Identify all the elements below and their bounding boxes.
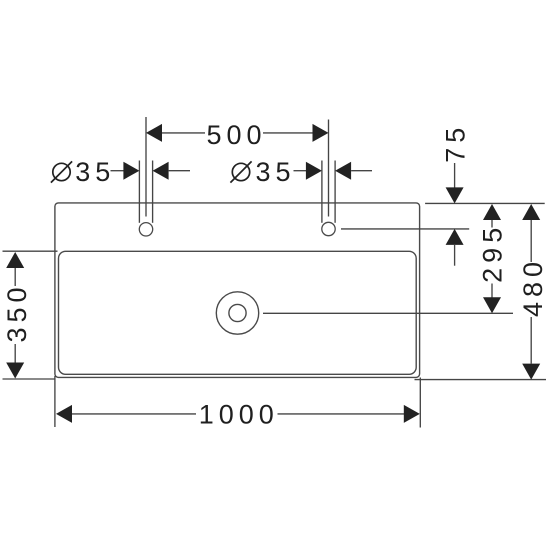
svg-text:350: 350 (2, 282, 32, 342)
extension line top right (rim back edge) (425, 202, 545, 204)
Ø35 label right: text 35 (255, 157, 295, 187)
extension line bottom right (415, 379, 547, 381)
Ø35 label right: diameter symbol (230, 161, 251, 182)
svg-text:35: 35 (255, 157, 295, 187)
extension line drain level (263, 312, 513, 314)
drain inner circle (229, 304, 246, 321)
svg-text:75: 75 (441, 123, 471, 163)
tap hole 2 circle (322, 222, 335, 235)
drain outer circle (216, 292, 258, 334)
basin inner bowl (59, 251, 417, 374)
dimension 350 line and arrows (6, 252, 24, 379)
Ø35 label left: diameter symbol (51, 161, 72, 182)
dimension 500 line (146, 124, 329, 142)
svg-text:295: 295 (478, 223, 508, 283)
Ø35 label left: text 35 (75, 157, 115, 187)
dimension 295 text (478, 223, 508, 283)
dimension 75 line and arrows (446, 163, 464, 266)
dimension 1000 text (199, 400, 279, 430)
dimension 1000 line and arrows (56, 405, 420, 423)
svg-text:1000: 1000 (199, 400, 279, 430)
dimension 295 line and arrows (483, 204, 501, 313)
dimension 350 text (2, 282, 32, 342)
tap hole 1 centerline (145, 117, 147, 217)
extension line 350 bottom (3, 378, 56, 380)
svg-text:35: 35 (75, 157, 115, 187)
svg-text:480: 480 (518, 257, 548, 317)
extension line 1000 left vertical (54, 376, 56, 427)
extension line tap hole level (341, 228, 469, 230)
extension line 350 top (3, 250, 58, 252)
svg-text:500: 500 (206, 120, 266, 150)
dimension 500 text (206, 120, 266, 150)
dimension 75 text (441, 123, 471, 163)
tap hole 1 slot lines (139, 161, 152, 223)
tap hole 2 centerline (328, 120, 330, 217)
tap hole 1 circle (139, 223, 152, 236)
basin outer rim (55, 203, 420, 378)
Ø35 right leader and arrows (294, 162, 373, 180)
tap hole 2 slot lines (322, 161, 335, 223)
dimension 480 text (518, 257, 548, 317)
dimension 480 line and arrows (522, 204, 540, 380)
extension line 1000 right vertical (419, 378, 421, 428)
Ø35 left leader and arrows (111, 162, 191, 180)
